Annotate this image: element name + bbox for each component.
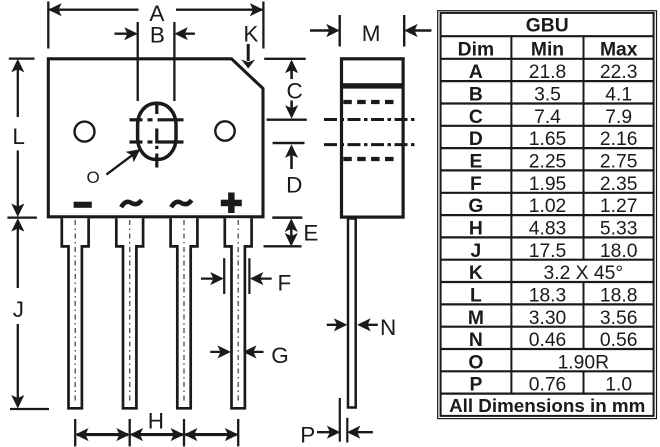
- dim J line and arrows: [17, 221, 19, 288]
- svg-text:1.95: 1.95: [529, 174, 567, 195]
- dim H arrows: [77, 433, 128, 436]
- svg-text:O: O: [468, 352, 483, 373]
- dim C top extension: [264, 58, 306, 60]
- svg-text:3.56: 3.56: [600, 308, 638, 329]
- svg-text:4.1: 4.1: [605, 85, 632, 106]
- svg-text:N: N: [469, 330, 483, 351]
- svg-text:0.56: 0.56: [600, 330, 638, 351]
- minus terminal: [74, 202, 92, 208]
- lead 2: [116, 218, 143, 408]
- dim F ticks: [223, 258, 225, 294]
- side dashed line upper: [343, 100, 397, 104]
- svg-text:C: C: [469, 107, 483, 128]
- lead 4: [225, 218, 252, 408]
- table text: [449, 15, 645, 416]
- dim L ticks: [9, 57, 35, 59]
- svg-text:7.4: 7.4: [534, 107, 561, 128]
- svg-text:7.9: 7.9: [605, 107, 632, 128]
- svg-text:5.33: 5.33: [600, 219, 638, 240]
- svg-text:D: D: [286, 172, 302, 197]
- svg-text:Dim: Dim: [458, 39, 494, 60]
- svg-text:18.8: 18.8: [600, 286, 638, 307]
- svg-text:18.3: 18.3: [529, 286, 567, 307]
- side dash-dot line lower: [324, 143, 415, 146]
- svg-text:3.2 X 45°: 3.2 X 45°: [544, 263, 624, 284]
- bottom extension (body base): [272, 216, 302, 219]
- svg-text:L: L: [470, 286, 482, 307]
- slot horizontal centerline lower: [130, 140, 184, 143]
- svg-text:N: N: [380, 315, 396, 340]
- ac terminal 1: [121, 200, 141, 207]
- side dash-dot line upper: [324, 118, 415, 121]
- svg-text:K: K: [243, 21, 258, 46]
- svg-text:1.27: 1.27: [600, 196, 638, 217]
- svg-text:L: L: [12, 124, 25, 149]
- table inner frame: [441, 13, 654, 416]
- svg-text:P: P: [469, 375, 482, 396]
- svg-text:A: A: [469, 62, 483, 83]
- hole right: [215, 121, 234, 140]
- table column dividers: [511, 36, 583, 393]
- lead 1: [62, 218, 89, 408]
- dim H ticks: [74, 419, 76, 446]
- dim B arrows: [115, 33, 135, 35]
- svg-text:2.35: 2.35: [600, 174, 638, 195]
- lead 3: [171, 218, 198, 408]
- dim N arrows: [327, 324, 344, 326]
- svg-text:J: J: [471, 241, 482, 262]
- dim D arrow: [286, 146, 297, 157]
- svg-text:B: B: [150, 23, 165, 48]
- side lead: [348, 219, 356, 408]
- svg-text:21.8: 21.8: [529, 62, 567, 83]
- dim P ticks: [339, 398, 341, 442]
- svg-text:1.02: 1.02: [529, 196, 567, 217]
- dim L line and arrows: [17, 62, 19, 117]
- leader arrow for O: [106, 155, 133, 175]
- dim M ticks: [339, 15, 341, 47]
- svg-text:Max: Max: [600, 39, 638, 60]
- svg-text:0.76: 0.76: [529, 375, 567, 396]
- svg-text:G: G: [468, 196, 483, 217]
- svg-text:1.90R: 1.90R: [558, 352, 610, 373]
- svg-text:All Dimensions in mm: All Dimensions in mm: [449, 395, 645, 416]
- svg-text:18.0: 18.0: [600, 241, 638, 262]
- svg-text:K: K: [469, 263, 483, 284]
- svg-text:2.25: 2.25: [529, 152, 567, 173]
- dim G arrows: [210, 351, 227, 353]
- table row lines: [440, 36, 653, 393]
- dim M arrows: [310, 29, 336, 31]
- svg-text:M: M: [362, 21, 381, 46]
- svg-text:22.3: 22.3: [600, 62, 638, 83]
- plus terminal: [221, 200, 242, 207]
- svg-text:3.5: 3.5: [534, 85, 561, 106]
- dim E arrows: [286, 220, 297, 231]
- svg-text:G: G: [271, 343, 289, 368]
- svg-text:F: F: [278, 271, 292, 296]
- svg-text:H: H: [148, 408, 164, 433]
- dim F arrows: [201, 277, 220, 279]
- dim D extension: [273, 142, 305, 144]
- dim K arrow: [247, 44, 250, 61]
- svg-text:P: P: [300, 422, 315, 447]
- hole left: [75, 122, 95, 142]
- svg-text:F: F: [470, 174, 482, 195]
- svg-text:D: D: [469, 129, 483, 150]
- svg-text:E: E: [303, 220, 318, 245]
- dim P arrows: [317, 431, 337, 433]
- svg-text:17.5: 17.5: [529, 241, 567, 262]
- svg-text:2.75: 2.75: [600, 152, 638, 173]
- dim C/D mid extension: [267, 118, 307, 120]
- dim E lower extension: [264, 245, 302, 247]
- side dashed line lower: [343, 157, 397, 161]
- dim B extension lines: [137, 22, 139, 101]
- svg-text:B: B: [469, 85, 483, 106]
- svg-text:1.0: 1.0: [605, 375, 632, 396]
- dim C arrows: [286, 61, 297, 72]
- svg-text:Min: Min: [531, 39, 564, 60]
- slot vertical centerline: [155, 102, 158, 168]
- svg-text:C: C: [287, 78, 303, 103]
- body outline: [48, 59, 263, 217]
- svg-text:J: J: [13, 297, 24, 322]
- svg-text:GBU: GBU: [526, 15, 569, 36]
- svg-text:E: E: [469, 152, 482, 173]
- side body: [342, 59, 404, 217]
- side body top band: [340, 83, 405, 88]
- svg-text:1.65: 1.65: [529, 129, 567, 150]
- svg-text:2.16: 2.16: [600, 129, 638, 150]
- slot oval: [138, 103, 176, 159]
- table outer border: [438, 11, 657, 419]
- slot horizontal centerline upper: [130, 118, 184, 121]
- svg-text:O: O: [87, 168, 100, 187]
- dim A line and arrows: [49, 9, 138, 11]
- svg-text:H: H: [469, 219, 483, 240]
- dim A extension lines: [47, 2, 49, 49]
- ac terminal 2: [171, 200, 191, 207]
- svg-text:M: M: [468, 308, 484, 329]
- dim J bottom tick: [10, 408, 49, 410]
- svg-text:3.30: 3.30: [529, 308, 567, 329]
- svg-text:4.83: 4.83: [529, 219, 567, 240]
- svg-text:0.46: 0.46: [529, 330, 567, 351]
